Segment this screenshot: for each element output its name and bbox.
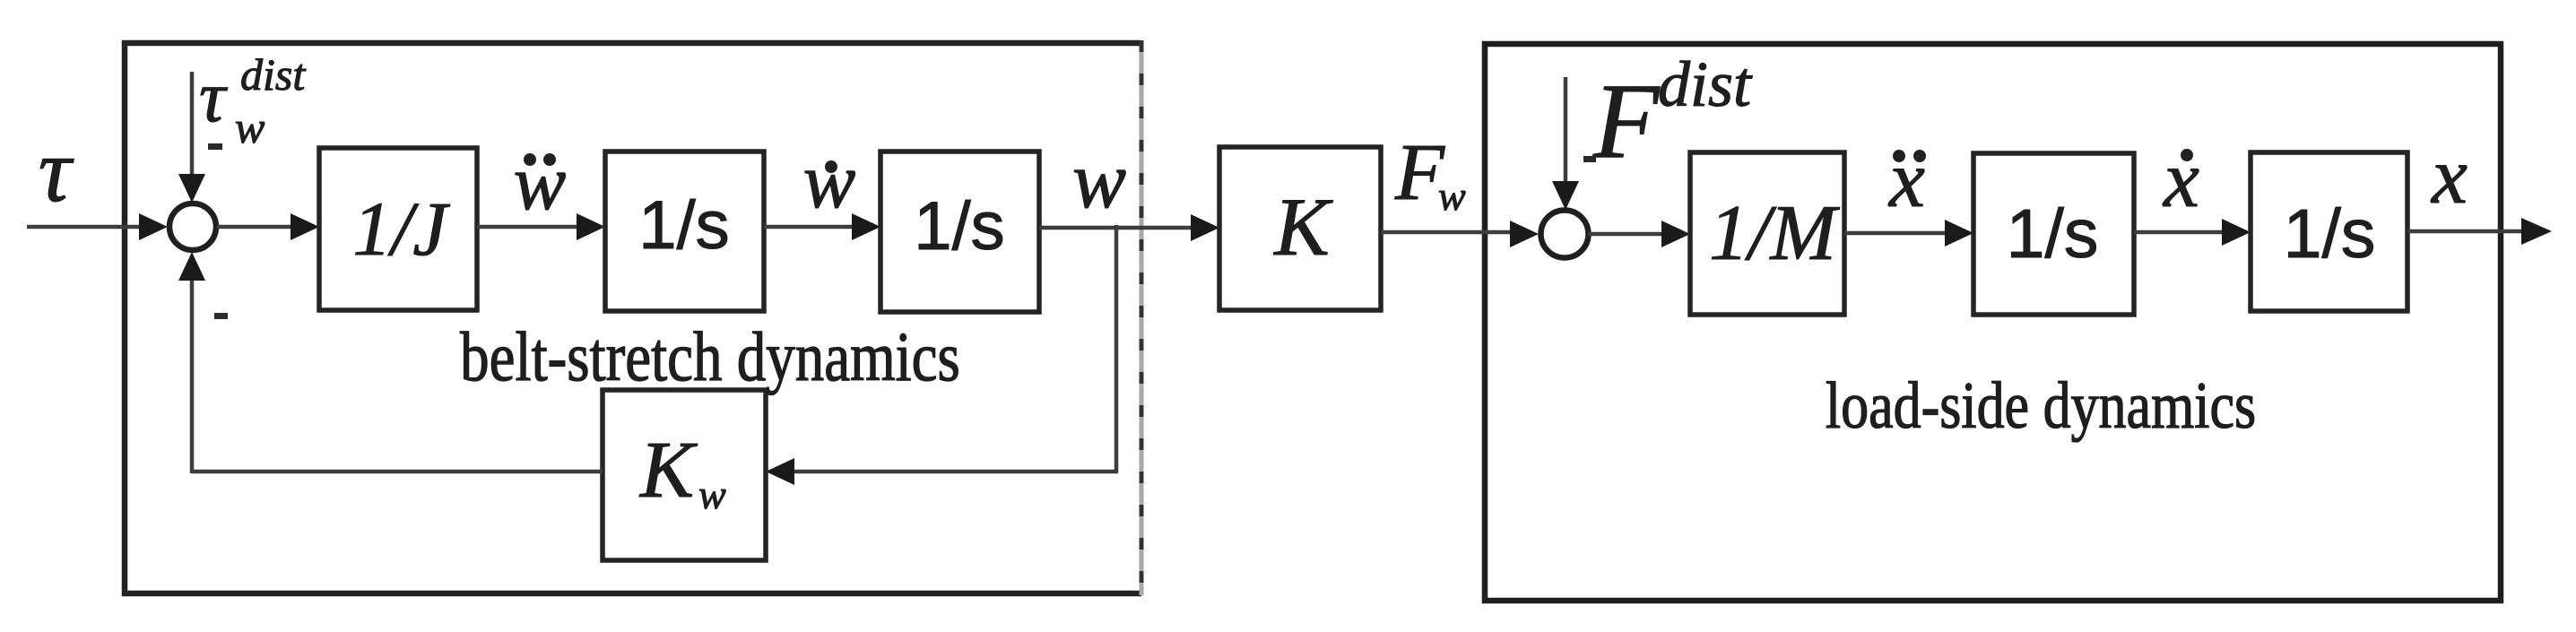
wire: S1 output to block 1/J bbox=[217, 213, 319, 240]
svg-text:w: w bbox=[698, 472, 726, 517]
wire: feedback rises into S1 bottom bbox=[178, 252, 205, 473]
wire: K_w output back to S1 (left segment) bbox=[192, 470, 603, 474]
wire: F^dist disturbance drop into S2 top bbox=[1552, 77, 1579, 210]
svg-text:x: x bbox=[2162, 135, 2199, 224]
node: feedback tap on w line bbox=[1115, 225, 1119, 472]
label: F_w (belt force) bbox=[1394, 128, 1466, 219]
block 1/s integrator #1 bbox=[605, 152, 764, 311]
svg-text:x: x bbox=[2430, 132, 2468, 221]
svg-text:1/s: 1/s bbox=[2007, 195, 2099, 273]
svg-text:τ: τ bbox=[199, 56, 228, 137]
block 1/s integrator #3 bbox=[1973, 153, 2134, 315]
wire: integrator #1 to integrator #2 bbox=[764, 213, 880, 240]
block 1/s integrator #2 bbox=[880, 152, 1039, 312]
block 1/J (motor inertia) bbox=[319, 148, 477, 310]
minus sign for tau_w^dist input bbox=[208, 143, 222, 150]
block K_w (belt stiffness feedback) bbox=[603, 390, 766, 560]
svg-text:belt-stretch dynamics: belt-stretch dynamics bbox=[460, 317, 960, 395]
svg-text:x: x bbox=[1887, 135, 1925, 224]
minus sign for K_w feedback into S1 bbox=[214, 313, 228, 319]
svg-text:1/s: 1/s bbox=[2284, 195, 2376, 273]
wire: tau_w^dist disturbance drop into S1 top bbox=[178, 72, 205, 203]
svg-text:w: w bbox=[803, 138, 856, 225]
summing junction S1 bbox=[169, 203, 216, 250]
svg-text:dist: dist bbox=[1658, 48, 1753, 120]
svg-text:1/s: 1/s bbox=[638, 187, 729, 264]
wire: S2 output to block 1/M bbox=[1588, 221, 1690, 247]
wire: output x leaves load-side box bbox=[2407, 218, 2552, 245]
label: w double-dot (angular acceleration) bbox=[514, 140, 567, 227]
wire: feedback down-right segment into K_w bbox=[766, 458, 1118, 485]
wire: tau input into summing junction S1 bbox=[27, 213, 168, 240]
svg-text:K: K bbox=[1272, 181, 1333, 273]
label: x double-dot (load acceleration) bbox=[1887, 135, 1926, 224]
wire: integrator #3 to integrator #4 bbox=[2134, 219, 2251, 246]
svg-text:K: K bbox=[638, 426, 698, 515]
svg-text:w: w bbox=[1072, 136, 1126, 225]
outer box: belt-stretch dynamics subsystem (left container) bbox=[125, 40, 1141, 595]
svg-text:load-side dynamics: load-side dynamics bbox=[1826, 368, 2256, 443]
label: tau_w^dist disturbance bbox=[199, 49, 306, 152]
label: w dot (angular velocity) bbox=[803, 138, 856, 225]
svg-text:1/s: 1/s bbox=[914, 188, 1004, 264]
svg-text:1/J: 1/J bbox=[352, 186, 450, 272]
svg-text:w: w bbox=[1438, 173, 1466, 219]
svg-text:1/M: 1/M bbox=[1709, 190, 1840, 277]
summing junction S2 bbox=[1541, 211, 1589, 258]
svg-text:w: w bbox=[235, 102, 265, 152]
block K (belt elasticity gain) bbox=[1219, 147, 1381, 310]
svg-text:τ: τ bbox=[39, 120, 74, 221]
wire: 1/J to first 1/s integrator bbox=[477, 213, 605, 240]
wire: 1/M to integrator #3 bbox=[1844, 220, 1973, 247]
svg-text:dist: dist bbox=[240, 49, 306, 100]
block 1/s integrator #4 bbox=[2251, 152, 2407, 311]
svg-text:F: F bbox=[1592, 61, 1661, 180]
outer box: load-side dynamics subsystem (right container) bbox=[1485, 44, 2501, 601]
block 1/M (load mass) bbox=[1690, 152, 1844, 315]
wire: integrator #2 output across box border to block K bbox=[1039, 214, 1219, 241]
label: F^dist disturbance bbox=[1592, 48, 1753, 180]
svg-text:w: w bbox=[514, 140, 567, 227]
minus sign for F^dist input bbox=[1583, 156, 1596, 162]
label: x dot (load velocity) bbox=[2162, 135, 2199, 224]
wire: K output to summing junction S2 bbox=[1381, 221, 1539, 247]
